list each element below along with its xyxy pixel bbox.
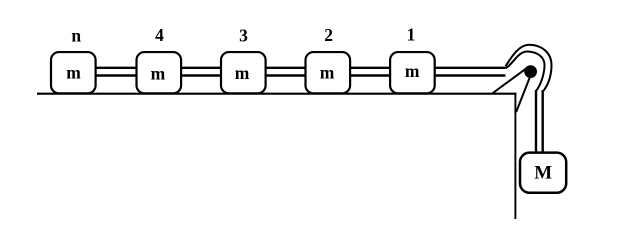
svg-text:1: 1	[407, 25, 416, 45]
svg-text:4: 4	[155, 25, 164, 45]
svg-text:3: 3	[239, 25, 248, 45]
svg-text:m: m	[151, 64, 166, 84]
svg-text:n: n	[71, 25, 81, 45]
svg-text:M: M	[534, 163, 552, 184]
svg-text:m: m	[235, 63, 250, 83]
svg-text:2: 2	[324, 25, 333, 45]
svg-text:m: m	[405, 61, 420, 81]
svg-text:m: m	[320, 62, 335, 82]
svg-text:m: m	[66, 62, 81, 82]
